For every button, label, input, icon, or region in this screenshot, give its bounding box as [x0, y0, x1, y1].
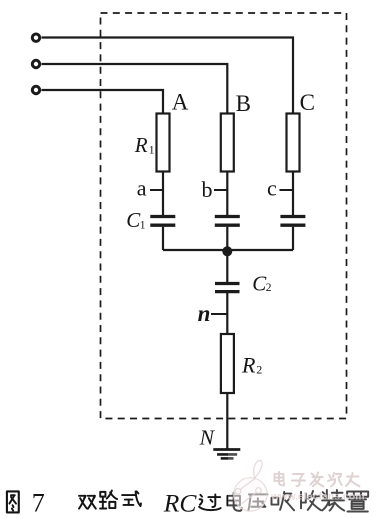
svg-text:a: a — [137, 176, 147, 201]
svg-text:A: A — [172, 89, 189, 114]
svg-text:2: 2 — [256, 363, 262, 377]
svg-text:R: R — [241, 353, 256, 378]
svg-text:2: 2 — [266, 282, 272, 294]
svg-text:N: N — [199, 425, 216, 449]
svg-text:C: C — [300, 90, 315, 115]
svg-text:www.elecfans.com: www.elecfans.com — [270, 491, 365, 503]
svg-text:b: b — [202, 177, 213, 202]
svg-text:RC: RC — [163, 488, 198, 517]
svg-text:c: c — [267, 176, 277, 201]
svg-text:B: B — [236, 91, 251, 116]
svg-text:1: 1 — [149, 145, 155, 157]
svg-text:n: n — [198, 301, 211, 326]
svg-text:1: 1 — [140, 219, 146, 231]
svg-text:7: 7 — [32, 489, 45, 518]
svg-text:R: R — [134, 133, 148, 157]
